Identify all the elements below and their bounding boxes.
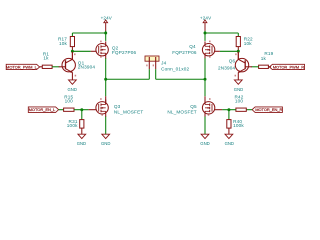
pin marks Q2 (100, 41, 102, 58)
pin 2 J4 (153, 61, 156, 69)
svg-text:Conn_01x02: Conn_01x02 (161, 67, 189, 72)
label R1 value (43, 51, 50, 60)
wire: R1 to Q1 base (52, 66, 59, 68)
ground: Q6 emitter (234, 80, 242, 84)
junction: Q2 gate node (71, 50, 74, 53)
svg-text:GND: GND (234, 87, 244, 93)
transistor Q5 NL_MOSFET (N-MOSFET) (202, 100, 214, 117)
label R19 value (261, 51, 274, 61)
wire: label to R42 (246, 109, 252, 111)
label R15 value (64, 95, 73, 104)
global label MOTOR_PWM_R (269, 64, 304, 69)
wire: J4 pin1 to left output (106, 69, 150, 79)
label Q5 value (167, 104, 197, 114)
transistor Q4 FQP27P06 (P-MOSFET) (202, 41, 214, 58)
pin marks Q3 (100, 98, 103, 116)
wire: Q6 collector (237, 52, 239, 60)
svg-text:GND: GND (77, 141, 87, 147)
junction: Q5 gate node (227, 108, 230, 111)
transistor Q1 2N3904 (NPN) (59, 52, 76, 80)
svg-text:1k: 1k (43, 55, 49, 60)
svg-text:GND: GND (200, 141, 210, 147)
label Q2 value (112, 45, 137, 55)
label R40 value (233, 119, 244, 128)
wire: label to R15 (59, 109, 64, 111)
transistor Q6 2N3904 (NPN) (235, 52, 252, 80)
resistor R15 (64, 108, 74, 111)
svg-text:Q6: Q6 (229, 58, 236, 63)
ground: R40 (225, 134, 233, 138)
svg-text:GND: GND (101, 141, 111, 147)
pin 1 J4 (146, 61, 149, 69)
label R22 value (244, 36, 253, 45)
label R42 value (234, 95, 243, 104)
global label MOTOR_EN_L (28, 107, 58, 113)
svg-text:2N3904: 2N3904 (218, 66, 236, 71)
wire: label to R19 (268, 66, 271, 68)
junction: Q4 gate node (237, 50, 240, 53)
svg-text:+24V: +24V (101, 15, 112, 20)
power +24V (left) (101, 15, 112, 31)
svg-text:J4: J4 (161, 61, 167, 66)
wire: R17 to Q2 gate (72, 50, 96, 52)
wire: R42 to Q5 gate (214, 109, 236, 111)
svg-text:100k: 100k (233, 123, 244, 128)
label R31 value (67, 119, 78, 128)
svg-text:NL_MOSFET: NL_MOSFET (167, 109, 196, 114)
label Q3 value (114, 104, 143, 114)
global label MOTOR_EN_R (252, 107, 282, 113)
wire: gate node to R31 (81, 110, 83, 120)
svg-text:1k: 1k (261, 56, 267, 61)
ground: Q5 source (201, 134, 209, 138)
label J4 value (161, 61, 189, 72)
resistor R42 (236, 108, 246, 111)
junction: Q3 gate node (80, 108, 83, 111)
wire: +24V rail to R22 (right) (205, 31, 238, 41)
svg-text:10k: 10k (244, 41, 253, 46)
svg-text:MOTOR_PWM_L: MOTOR_PWM_L (6, 64, 38, 69)
svg-text:2N3904: 2N3904 (78, 64, 96, 69)
wire: R15 to Q3 gate (74, 109, 97, 111)
ground: Q1 emitter (69, 80, 77, 84)
label Q6 value (218, 58, 236, 70)
resistor R31 (80, 120, 84, 135)
power +24V (right) (200, 15, 211, 31)
transistor Q2 FQP27P06 (P-MOSFET) (96, 41, 108, 58)
transistor Q3 NL_MOSFET (N-MOSFET) (96, 100, 108, 117)
pin marks Q4 (209, 41, 211, 58)
label GND (R40) (225, 141, 235, 147)
wire: R22 to Q4 gate (214, 50, 238, 52)
label GND (Q6) (234, 87, 244, 93)
junction: output node (left) (104, 78, 107, 81)
label Q1 value (78, 61, 96, 70)
svg-text:MOTOR_EN_R: MOTOR_EN_R (255, 107, 282, 112)
resistor R19 (259, 65, 269, 68)
ground: R31 (78, 134, 86, 138)
pin marks Q5 (208, 98, 211, 116)
wire: label to R1 (40, 66, 43, 68)
svg-text:GND: GND (225, 141, 235, 147)
resistor R22 (236, 37, 240, 52)
wire: J4 pin2 to right output (156, 69, 205, 79)
label Q4 value (172, 44, 197, 55)
wire: gate node to R40 (228, 110, 230, 120)
wire: Q4 drain to output node (right) (204, 58, 206, 104)
svg-text:FQP27P06: FQP27P06 (112, 50, 137, 55)
svg-text:+24V: +24V (200, 15, 211, 20)
svg-text:100k: 100k (67, 123, 78, 128)
label GND (Q1) (68, 87, 78, 93)
wire: Q5 source to ground (204, 117, 206, 135)
label GND (Q3) (101, 141, 111, 147)
resistor R17 (70, 37, 74, 52)
resistor R1 (42, 65, 52, 68)
wire: Q1 collector (71, 52, 73, 60)
wire: +24V rail to R17 (left) (72, 31, 105, 41)
svg-text:Q4: Q4 (189, 44, 196, 49)
svg-text:NL_MOSFET: NL_MOSFET (114, 109, 143, 114)
wire: R19 to Q6 base (251, 66, 258, 68)
svg-text:100: 100 (235, 98, 244, 103)
junction: +24V node (right) (204, 32, 207, 35)
ground: Q3 source (102, 134, 110, 138)
junction: output node (right) (204, 78, 207, 81)
svg-text:GND: GND (68, 87, 78, 93)
global label MOTOR_PWM_L (6, 64, 40, 69)
connector J4 body (145, 56, 159, 61)
svg-text:100: 100 (65, 98, 74, 103)
svg-text:MOTOR_EN_L: MOTOR_EN_L (29, 107, 56, 112)
pin marks Q1 (74, 53, 76, 76)
pin marks Q6 (235, 53, 237, 76)
svg-text:10k: 10k (59, 41, 68, 46)
svg-text:FQP27P06: FQP27P06 (172, 50, 197, 55)
label GND (R31) (77, 141, 87, 147)
label R17 value (58, 36, 68, 45)
svg-text:MOTOR_PWM_R: MOTOR_PWM_R (273, 64, 305, 69)
junction: +24V node (left) (104, 32, 107, 35)
resistor R40 (227, 120, 231, 135)
wire: Q3 source to ground (105, 117, 107, 135)
wire: Q2 drain to output node (left) (105, 58, 107, 104)
label GND (Q5) (200, 141, 210, 147)
